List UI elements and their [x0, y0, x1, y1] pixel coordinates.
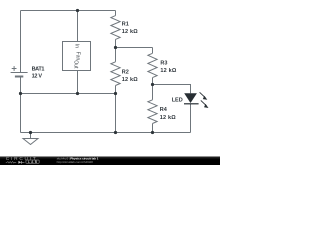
svg-text:LAB: LAB — [28, 160, 38, 164]
svg-text:Out: Out — [72, 60, 78, 69]
node junction dots — [19, 9, 154, 134]
battery BAT1 — [11, 66, 28, 76]
svg-text:Fan: Fan — [75, 52, 81, 61]
node R2-branch bottom — [114, 131, 117, 134]
fan box U1 — [63, 42, 91, 71]
wire left rail lower battery lead — [20, 77, 22, 94]
LED D1 — [184, 92, 209, 108]
wire left rail upper battery lead — [20, 11, 22, 73]
node R3/R4/LED — [151, 83, 154, 86]
node fan-out — [76, 92, 79, 95]
svg-text:LED: LED — [172, 97, 183, 103]
node mid R1/R2/R3 — [114, 46, 117, 49]
svg-text:12 kΩ: 12 kΩ — [122, 29, 138, 35]
footer logo diode glyph — [18, 161, 21, 164]
footer logo resistor glyph — [6, 161, 16, 163]
svg-text:http://circuitlab.com/c/h49t28: http://circuitlab.com/c/h49t28 — [57, 160, 93, 164]
svg-text:In: In — [74, 44, 80, 48]
wire top rail — [21, 10, 116, 12]
svg-text:BAT1: BAT1 — [32, 66, 45, 72]
svg-text:12 V: 12 V — [32, 74, 43, 80]
resistor R2 — [111, 48, 120, 94]
node R4 bottom — [151, 131, 154, 134]
ground — [23, 133, 38, 145]
resistor R3 — [148, 48, 157, 85]
svg-text:12 kΩ: 12 kΩ — [160, 68, 176, 74]
svg-text:12 kΩ: 12 kΩ — [160, 115, 176, 121]
wire left rail down to bottom rail — [20, 94, 22, 133]
wire mid junction to R3 — [116, 47, 153, 49]
wire R3 bottom to LED top — [153, 85, 191, 94]
wire LED bottom — [190, 104, 192, 133]
svg-text:R4: R4 — [160, 107, 168, 113]
footer logo LAB box — [26, 160, 39, 163]
svg-text:R2: R2 — [122, 69, 129, 75]
node battery-minus — [19, 92, 22, 95]
wire fan bottom branch — [77, 71, 79, 94]
node R2-bottom — [114, 92, 117, 95]
wire R2 bottom to bottom rail — [115, 94, 117, 133]
svg-text:R3: R3 — [160, 60, 167, 66]
wire fan top branch — [77, 11, 79, 42]
svg-text:R1: R1 — [122, 22, 129, 28]
node fan-top — [76, 9, 79, 12]
node ground junction — [29, 131, 32, 134]
footer bar — [0, 156, 220, 165]
resistor R1 — [111, 11, 120, 48]
svg-text:12 kΩ: 12 kΩ — [122, 77, 138, 83]
wire mid ground rail — [21, 93, 116, 95]
resistor R4 — [148, 85, 157, 133]
wire bottom rail — [21, 132, 191, 134]
